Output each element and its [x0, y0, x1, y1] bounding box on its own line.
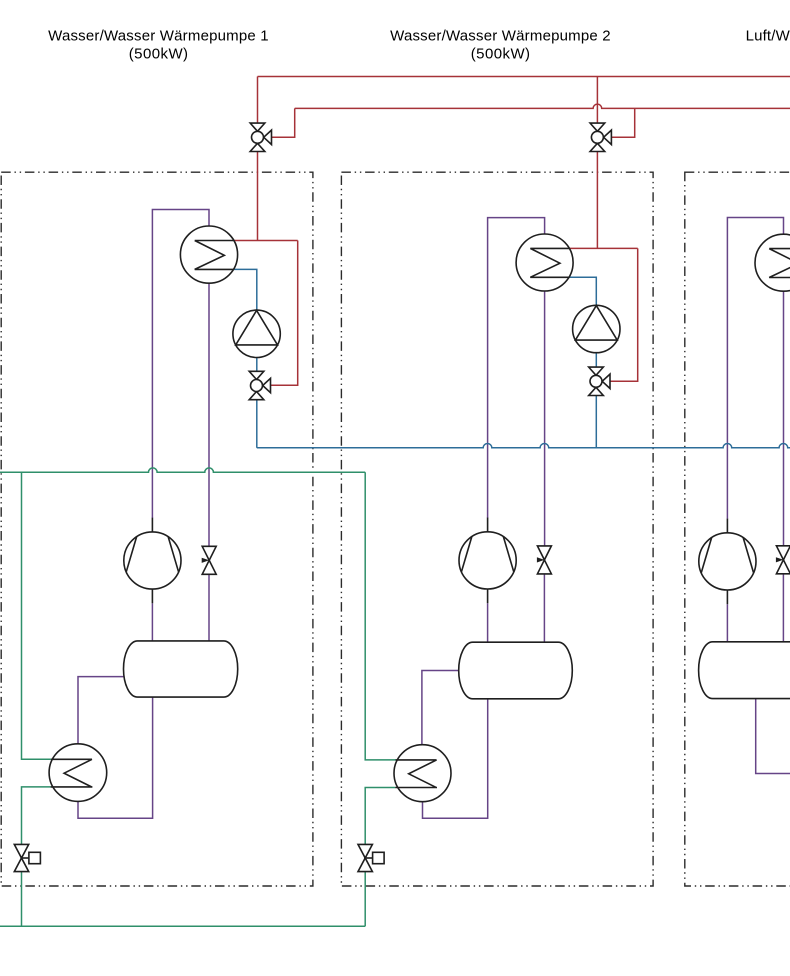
wire purple HX2 bottom to expansion valve E2 [544, 291, 546, 546]
tank T1 [124, 641, 238, 697]
condenser HX2 [516, 234, 573, 291]
wire red condenser HX1 outlet horizontal [234, 240, 298, 242]
wire purple tank T3 bottom outlet to right edge [756, 699, 790, 774]
svg-text:Luft/Wasser Wärmepumpe 3: Luft/Wasser Wärmepumpe 3 [746, 27, 790, 44]
wire green drop to evaporator HX2e [365, 472, 395, 760]
condenser HX1 [180, 226, 237, 283]
wire purple HX1 top to compressor P1c [152, 210, 209, 519]
shut-off valve V1g with actuator [14, 844, 40, 871]
3-way valve V2 [590, 123, 611, 151]
compressor P1c [124, 518, 181, 604]
wire purple compressor P2c to tank T2 [487, 603, 489, 642]
unit 2 enclosure box [341, 172, 653, 886]
expansion valve E2 [537, 546, 552, 574]
wire red return header line 2 with hop over unit2 drop [295, 104, 790, 108]
wire purple expansion valve E2 to tank T2 [543, 574, 545, 642]
tank T2 [459, 642, 573, 699]
wire red valve V2 down to condenser HX2 tee [596, 152, 598, 249]
wire purple compressor P1c to tank T1 [151, 603, 153, 640]
evaporator HX1e [49, 744, 107, 802]
tank T3 (clipped at right edge) [699, 642, 790, 699]
wire purple tank T1 left to evaporator HX1e [78, 677, 125, 744]
wire purple HX3 bottom to expansion valve E3 [783, 291, 785, 546]
unit 1 enclosure box [1, 172, 313, 886]
compressor P3c [699, 519, 756, 605]
wire purple HX3 top to compressor P3c [727, 218, 783, 519]
wire green valve V2g to bottom header [364, 872, 366, 927]
wire purple evaporator HX2e bottom back to tank T2 [423, 699, 488, 818]
pump P1 [233, 310, 280, 357]
wire blue HX2 to pump P2 [569, 277, 596, 305]
wire red riser from valve V2 right port [611, 108, 634, 137]
expansion valve E1 [202, 546, 217, 574]
svg-text:Wasser/Wasser Wärmepumpe 2: Wasser/Wasser Wärmepumpe 2 [390, 27, 611, 44]
wire red condenser HX2 outlet horizontal [570, 247, 638, 249]
wire red drop unit2 to valve V2 [596, 77, 598, 124]
wire red supply header line 1 [258, 76, 790, 78]
svg-text:(500kW): (500kW) [129, 46, 188, 63]
evaporator HX2e [394, 745, 451, 802]
unit 3 enclosure box [685, 172, 790, 886]
wire green source header with hops over purple lines [0, 468, 365, 472]
wire blue HX1 to pump P1 [233, 269, 256, 310]
wire green bottom return header [0, 925, 365, 927]
wire blue valve V1b down [256, 400, 258, 448]
3-way valve V2b [589, 367, 610, 395]
3-way valve V1 [250, 123, 271, 151]
shut-off valve V2g with actuator [358, 844, 384, 871]
wire green evaporator HX1e return to valve V1g [22, 787, 51, 845]
wire red valve V1 down to condenser HX1 tee [257, 152, 259, 241]
wire green valve V1g to bottom header [21, 872, 23, 927]
wire purple expansion valve E3 to tank T3 [782, 574, 784, 642]
3-way valve V1b [249, 371, 270, 399]
wire green drop to evaporator HX1e [22, 472, 51, 759]
wire blue valve V2b down [595, 396, 597, 448]
wire purple HX1 bottom to expansion valve E1 [208, 283, 210, 546]
pump P2 [573, 305, 620, 352]
compressor P2c [459, 518, 516, 604]
wire red riser from valve V1 right port [272, 108, 295, 137]
svg-text:Wasser/Wasser Wärmepumpe 1: Wasser/Wasser Wärmepumpe 1 [48, 27, 269, 44]
wire purple compressor P3c to tank T3 [726, 604, 728, 642]
wire purple expansion valve E1 to tank T1 [208, 574, 210, 640]
wire green evaporator HX2e return to valve V2g [365, 788, 395, 845]
expansion valve E3 [776, 546, 790, 574]
wire blue return header with hops over purple lines [257, 443, 790, 447]
wire blue pump P1 to valve V1b [256, 358, 258, 372]
wire blue pump P2 to valve V2b [595, 353, 597, 367]
wire purple HX2 top to compressor P2c [488, 218, 545, 518]
wire red down right side unit1 to valve V1b [271, 241, 298, 386]
wire purple evaporator HX1e bottom back to tank T1 [78, 697, 153, 818]
wire red down right side unit2 to valve V2b [610, 248, 638, 381]
wire red drop unit1 to valve V1 [257, 77, 259, 124]
wire purple tank T2 left to evaporator HX2e [422, 671, 459, 745]
svg-text:(500kW): (500kW) [471, 46, 530, 63]
condenser HX3 (clipped at right edge) [755, 234, 790, 291]
